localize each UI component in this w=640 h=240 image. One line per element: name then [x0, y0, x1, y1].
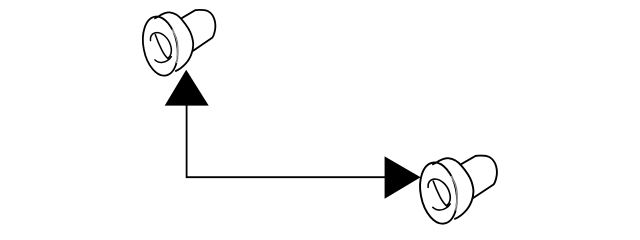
arrow right — [385, 156, 421, 198]
grommet (bottom-right) — [415, 156, 497, 227]
arrow up — [165, 70, 209, 106]
grommet (top-left) — [138, 10, 215, 79]
leader line — [187, 100, 386, 177]
